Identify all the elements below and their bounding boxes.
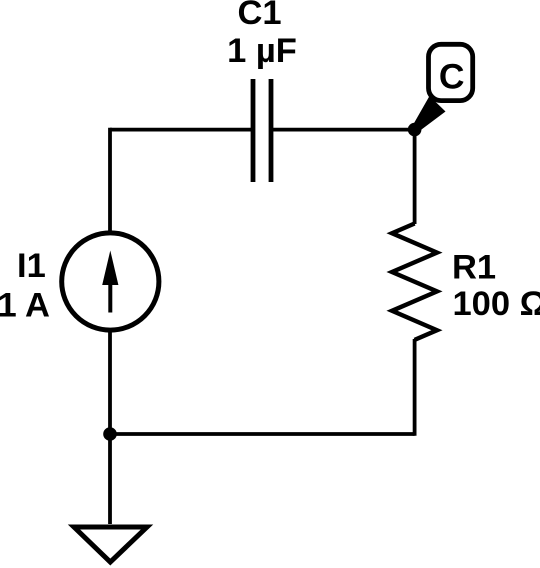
wire right vertical upper — [413, 128, 417, 224]
wire top segment right of C1 — [270, 128, 415, 132]
resistor R1 — [392, 224, 437, 340]
svg-text:C: C — [439, 56, 465, 96]
junction dot node C — [408, 123, 422, 137]
junction dot bottom-left — [103, 427, 117, 441]
capacitor C1 — [253, 79, 271, 182]
svg-text:C1: C1 — [237, 0, 281, 32]
wire left vertical upper — [108, 128, 112, 235]
svg-text:I1: I1 — [17, 247, 46, 285]
svg-text:1 µF: 1 µF — [227, 32, 297, 70]
wire ground stem — [108, 434, 112, 524]
wire bottom segment — [110, 432, 415, 436]
wire right vertical lower — [413, 339, 417, 436]
svg-text:100 Ω: 100 Ω — [453, 285, 540, 323]
wire left vertical lower — [108, 329, 112, 435]
svg-text:1 A: 1 A — [0, 287, 50, 325]
current source I1 — [62, 233, 159, 330]
wire top segment left of C1 — [110, 128, 254, 132]
node C flag pointer — [412, 96, 446, 133]
ground — [74, 527, 147, 562]
svg-text:R1: R1 — [452, 249, 496, 287]
node C label box — [429, 44, 473, 100]
